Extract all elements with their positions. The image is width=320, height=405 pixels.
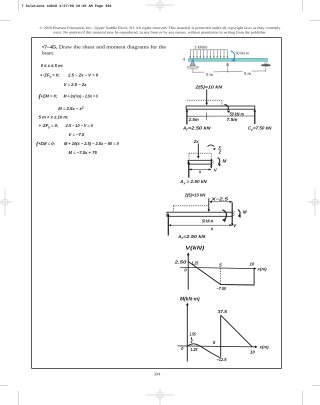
svg-text:x(m): x(m) <box>259 345 270 350</box>
svg-text:exist. No portion of this mate: exist. No portion of this material may b… <box>54 31 267 35</box>
svg-text:+↑ΣFy = 0;2.5 − 10 − V = 0: +↑ΣFy = 0;2.5 − 10 − V = 0 <box>39 123 94 129</box>
svg-text:•7–45. Draw the shear and mom: •7–45. Draw the shear and moment diagram… <box>42 45 167 51</box>
svg-text:0 ≤ x ≤ 5 m:: 0 ≤ x ≤ 5 m: <box>41 63 64 68</box>
svg-text:M = −7.5x + 75: M = −7.5x + 75 <box>69 150 98 155</box>
svg-text:7.5m: 7.5m <box>227 117 238 122</box>
svg-text:1.56: 1.56 <box>190 331 197 336</box>
svg-text:−7.50: −7.50 <box>217 286 227 291</box>
svg-text:394: 394 <box>154 371 161 376</box>
svg-text:M: M <box>223 159 227 164</box>
svg-text:50 kN·m: 50 kN·m <box>202 218 213 223</box>
svg-text:x: x <box>198 169 202 174</box>
svg-text:V = −7.5: V = −7.5 <box>69 132 86 137</box>
svg-text:50 kN·m: 50 kN·m <box>236 50 250 55</box>
svg-text:M + 10(x − 2.5) − 2.5x − 50 =: M + 10(x − 2.5) − 2.5x − 50 = 0 <box>64 141 119 146</box>
svg-text:+↑ΣFy = 0; 2.5 − 2x − V = 0: +↑ΣFy = 0; 2.5 − 2x − V = 0 <box>40 73 99 79</box>
svg-text:2x: 2x <box>193 139 199 144</box>
svg-text:2(5)=10 kN: 2(5)=10 kN <box>184 192 206 197</box>
svg-text:1.25: 1.25 <box>192 260 199 265</box>
svg-text:2.50: 2.50 <box>173 260 187 265</box>
svg-text:x(m): x(m) <box>257 267 268 272</box>
svg-text:M: M <box>243 209 247 214</box>
svg-text:5 m: 5 m <box>244 71 251 76</box>
svg-text:A: A <box>182 56 186 61</box>
svg-text:V(kN): V(kN) <box>185 246 204 252</box>
svg-text:−12.5: −12.5 <box>217 357 228 362</box>
svg-text:5 m < x ≤ 10 m:: 5 m < x ≤ 10 m: <box>39 115 69 120</box>
svg-text:5 m: 5 m <box>206 72 213 77</box>
svg-text:M = 2.5x − x2: M = 2.5x − x2 <box>58 106 84 111</box>
svg-text:x: x <box>210 226 214 231</box>
svg-text:2.5m: 2.5m <box>188 117 199 122</box>
svg-text:7 Solutions 44918 1/27/09 10: 7 Solutions 44918 1/27/09 10:29 AM Page … <box>22 4 113 9</box>
svg-text:10: 10 <box>250 349 255 354</box>
svg-text:10: 10 <box>250 262 255 267</box>
svg-text:X−2.5: X−2.5 <box>210 197 229 202</box>
svg-text:2 kN/m: 2 kN/m <box>194 44 207 49</box>
svg-text:2: 2 <box>218 149 222 154</box>
svg-text:50 kN·m: 50 kN·m <box>230 112 244 117</box>
svg-text:M + 2x(½x) − 2.5x = 0: M + 2x(½x) − 2.5x = 0 <box>64 94 99 99</box>
svg-text:V = 2.5 − 2x: V = 2.5 − 2x <box>64 82 87 87</box>
svg-text:beam.: beam. <box>42 50 54 56</box>
svg-text:2(5)=10 kN: 2(5)=10 kN <box>194 84 223 89</box>
svg-text:M(kN·m): M(kN·m) <box>180 297 200 303</box>
svg-text:1.25: 1.25 <box>190 347 198 352</box>
svg-text:37.5: 37.5 <box>218 309 228 314</box>
